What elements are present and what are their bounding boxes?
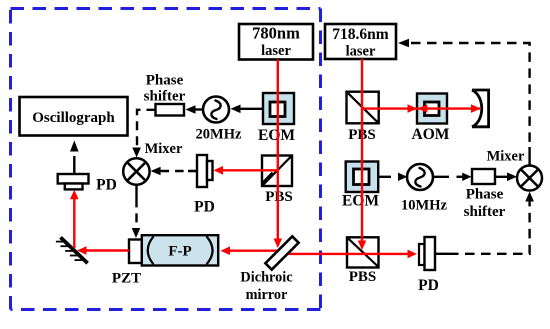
wire: mirror up to PD beam (red) — [70, 190, 79, 248]
PBS (718.6nm bottom) — [347, 237, 379, 285]
wire: PD to mixer (dashed) — [151, 167, 197, 176]
dichroic mirror — [240, 236, 298, 303]
laser 780nm box — [239, 24, 313, 60]
svg-text:F-P: F-P — [168, 243, 191, 259]
wire: 10MHz to phase shifter — [433, 173, 472, 181]
svg-text:laser: laser — [346, 44, 376, 60]
wire: PD to mixer (right, dashed) — [435, 192, 534, 254]
wire: EOM to 20MHz oscillator — [231, 105, 264, 114]
svg-text:PBS: PBS — [265, 189, 293, 205]
PBS (780nm path) — [262, 156, 293, 206]
wire: PD to Oscillograph (dashed, arrow up) — [70, 141, 79, 165]
wire: 20MHz oscillator to phase shifter — [186, 105, 203, 114]
oscillator 10MHz — [401, 164, 447, 214]
wire: PBS to AOM to curved mirror beam (red) — [362, 104, 481, 113]
wire: dashed feedback to 718.6nm laser — [398, 39, 530, 166]
wire: phase shifter to mixer (right) — [495, 173, 517, 182]
phase shifter box (20MHz arm) — [144, 73, 186, 116]
svg-text:Mixer: Mixer — [487, 149, 525, 165]
svg-text:laser: laser — [261, 43, 291, 59]
svg-text:mirror: mirror — [246, 287, 288, 303]
svg-text:780nm: 780nm — [252, 24, 300, 43]
PZT actuator — [112, 240, 142, 287]
svg-text:AOM: AOM — [412, 126, 450, 143]
F-P cavity — [142, 235, 218, 265]
photodetector PD (PBS reflection arm) — [190, 155, 215, 216]
mixer (left) — [123, 141, 183, 185]
PBS (718.6nm top) — [347, 92, 379, 143]
svg-text:10MHz: 10MHz — [401, 198, 447, 214]
svg-text:Phase: Phase — [146, 73, 184, 89]
photodetector PD (beat note) — [418, 237, 439, 294]
blue dashed enclosure — [11, 9, 321, 310]
svg-text:718.6nm: 718.6nm — [332, 26, 388, 43]
wire: dichroic mirror horizontal beam to F-P and to PD (red) — [221, 246, 418, 258]
phase shifter box (10MHz arm) — [464, 169, 506, 220]
svg-text:Phase: Phase — [466, 187, 504, 203]
svg-text:PD: PD — [96, 177, 117, 194]
svg-text:Dichroic: Dichroic — [240, 270, 292, 286]
wire: phase shifter down to mixer (dashed) — [132, 110, 155, 158]
svg-text:20MHz: 20MHz — [196, 127, 242, 143]
svg-text:shifter: shifter — [144, 89, 186, 105]
svg-text:PD: PD — [194, 199, 215, 216]
steering mirror with hatching — [56, 237, 88, 263]
wire: EOM to 10MHz oscillator — [378, 173, 407, 181]
oscillator 20MHz — [196, 97, 242, 143]
wire: mixer down to PZT (dashed) — [132, 185, 141, 238]
svg-text:shifter: shifter — [464, 204, 506, 220]
Oscillograph box — [20, 97, 128, 136]
wire: 780nm laser beam vertical (red) — [274, 60, 283, 249]
AOM — [412, 94, 450, 144]
curved mirror (concave) — [472, 90, 489, 127]
svg-text:PD: PD — [418, 277, 439, 294]
wire: PZT to steering mirror beam (red) — [77, 246, 129, 255]
svg-text:PZT: PZT — [112, 271, 141, 287]
svg-text:Mixer: Mixer — [145, 141, 183, 157]
svg-text:EOM: EOM — [342, 193, 379, 210]
mixer (right) — [487, 149, 542, 191]
svg-text:PBS: PBS — [349, 269, 377, 285]
laser 718.6nm box — [325, 24, 396, 60]
photodetector PD (oscillograph arm) — [58, 164, 117, 194]
EOM (780nm path) — [258, 93, 295, 144]
wire: PBS to PD horizontal beam (red) — [214, 166, 278, 175]
svg-text:Oscillograph: Oscillograph — [32, 110, 115, 126]
EOM (718.6nm path) — [342, 162, 379, 210]
wire: 718.6nm laser beam vertical (red) — [358, 59, 367, 250]
